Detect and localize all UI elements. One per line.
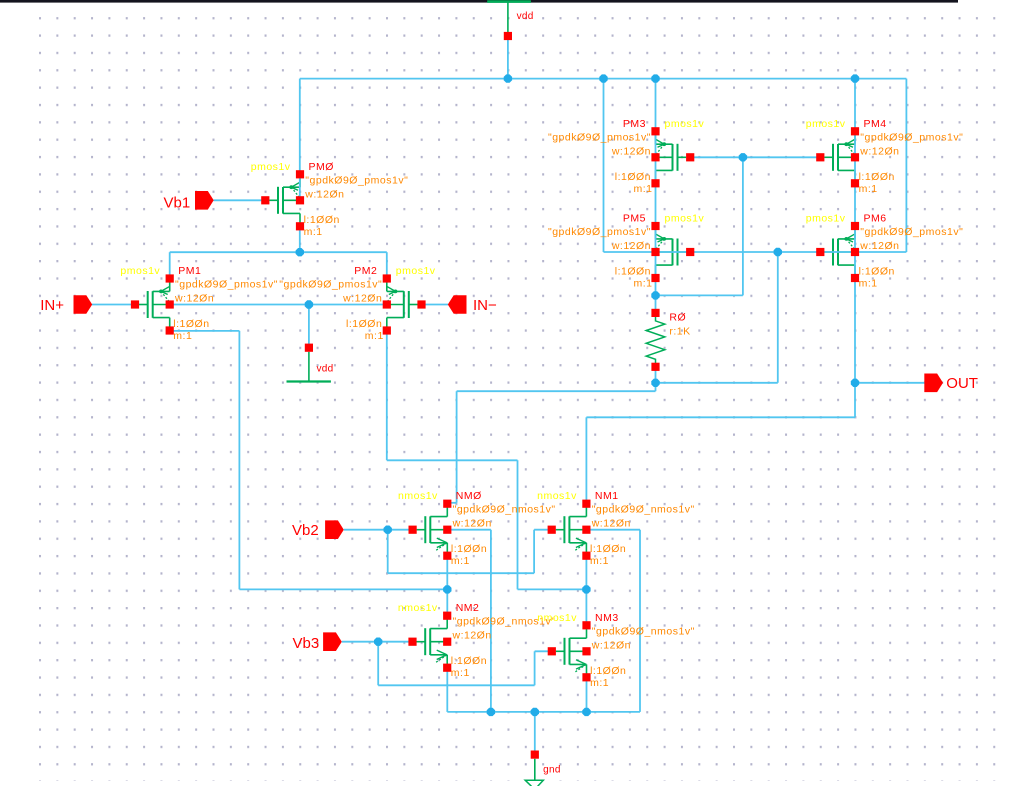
svg-text:"gpdkØ9Ø_pmos1v": "gpdkØ9Ø_pmos1v" <box>860 131 963 143</box>
svg-text:IN+: IN+ <box>40 297 64 314</box>
svg-text:m:1: m:1 <box>365 330 384 342</box>
svg-text:l:1ØØn: l:1ØØn <box>346 318 382 330</box>
svg-text:"gpdkØ9Ø_pmos1v": "gpdkØ9Ø_pmos1v" <box>305 174 408 186</box>
svg-text:w:12Øn: w:12Øn <box>174 293 214 305</box>
svg-text:w:12Øn: w:12Øn <box>452 518 492 530</box>
svg-text:l:1ØØn: l:1ØØn <box>859 266 895 278</box>
svg-text:l:1ØØn: l:1ØØn <box>173 318 209 330</box>
svg-text:m:1: m:1 <box>590 555 609 567</box>
svg-text:PM5: PM5 <box>623 213 646 225</box>
svg-text:"gpdkØ9Ø_nmos1v": "gpdkØ9Ø_nmos1v" <box>592 625 695 637</box>
svg-text:Vb2: Vb2 <box>292 522 319 539</box>
svg-text:m:1: m:1 <box>590 677 609 689</box>
svg-text:gnd: gnd <box>543 765 561 776</box>
svg-text:PM6: PM6 <box>864 213 887 225</box>
svg-text:PM3: PM3 <box>623 118 646 130</box>
svg-text:l:1ØØn: l:1ØØn <box>304 214 340 226</box>
svg-text:nmos1v: nmos1v <box>537 490 577 502</box>
svg-text:PM1: PM1 <box>178 265 201 277</box>
svg-text:"gpdkØ9Ø_nmos1v": "gpdkØ9Ø_nmos1v" <box>453 504 556 516</box>
svg-text:"gpdkØ9Ø_nmos1v": "gpdkØ9Ø_nmos1v" <box>592 504 695 516</box>
svg-text:w:12Øn: w:12Øn <box>304 188 344 200</box>
svg-text:m:1: m:1 <box>451 555 470 567</box>
svg-text:pmos1v: pmos1v <box>806 118 846 130</box>
svg-text:vdd: vdd <box>317 363 334 374</box>
svg-text:NM1: NM1 <box>595 490 619 502</box>
svg-text:nmos1v: nmos1v <box>537 612 577 624</box>
svg-text:RØ: RØ <box>669 312 686 324</box>
svg-text:pmos1v: pmos1v <box>665 213 705 225</box>
svg-text:Vb1: Vb1 <box>164 195 191 212</box>
svg-text:"gpdkØ9Ø_pmos1v": "gpdkØ9Ø_pmos1v" <box>548 131 651 143</box>
svg-text:w:12Øn: w:12Øn <box>859 145 899 157</box>
svg-text:w:12Øn: w:12Øn <box>342 293 382 305</box>
svg-text:pmos1v: pmos1v <box>665 118 705 130</box>
svg-text:l:1ØØn: l:1ØØn <box>615 266 651 278</box>
svg-text:l:1ØØn: l:1ØØn <box>451 543 487 555</box>
svg-text:PM2: PM2 <box>354 265 377 277</box>
svg-text:nmos1v: nmos1v <box>398 602 438 614</box>
svg-text:vdd: vdd <box>517 11 534 22</box>
svg-text:m:1: m:1 <box>173 330 192 342</box>
svg-text:NM2: NM2 <box>456 602 480 614</box>
svg-text:l:1ØØn: l:1ØØn <box>451 655 487 667</box>
svg-text:"gpdkØ9Ø_pmos1v": "gpdkØ9Ø_pmos1v" <box>279 279 382 291</box>
svg-text:r:1K: r:1K <box>669 326 690 338</box>
svg-text:pmos1v: pmos1v <box>120 265 160 277</box>
svg-text:PMØ: PMØ <box>309 161 334 173</box>
svg-text:"gpdkØ9Ø_pmos1v": "gpdkØ9Ø_pmos1v" <box>175 279 278 291</box>
svg-text:NMØ: NMØ <box>456 490 482 502</box>
svg-text:w:12Øn: w:12Øn <box>591 639 631 651</box>
svg-text:l:1ØØn: l:1ØØn <box>859 171 895 183</box>
svg-text:"gpdkØ9Ø_pmos1v": "gpdkØ9Ø_pmos1v" <box>860 226 963 238</box>
svg-text:l:1ØØn: l:1ØØn <box>615 171 651 183</box>
svg-text:IN−: IN− <box>473 297 497 314</box>
svg-text:Vb3: Vb3 <box>293 635 320 652</box>
svg-text:w:12Øn: w:12Øn <box>591 518 631 530</box>
svg-text:NM3: NM3 <box>595 612 619 624</box>
svg-text:pmos1v: pmos1v <box>806 213 846 225</box>
svg-text:w:12Øn: w:12Øn <box>859 240 899 252</box>
svg-text:l:1ØØn: l:1ØØn <box>590 543 626 555</box>
svg-text:pmos1v: pmos1v <box>396 265 436 277</box>
svg-text:m:1: m:1 <box>859 278 878 290</box>
svg-text:m:1: m:1 <box>451 667 470 679</box>
svg-text:w:12Øn: w:12Øn <box>611 145 651 157</box>
svg-text:m:1: m:1 <box>633 183 652 195</box>
svg-text:nmos1v: nmos1v <box>398 490 438 502</box>
svg-text:m:1: m:1 <box>304 226 323 238</box>
svg-text:OUT: OUT <box>946 375 978 392</box>
svg-text:m:1: m:1 <box>633 278 652 290</box>
svg-text:m:1: m:1 <box>859 183 878 195</box>
svg-text:PM4: PM4 <box>864 118 887 130</box>
svg-text:pmos1v: pmos1v <box>251 161 291 173</box>
svg-text:w:12Øn: w:12Øn <box>452 630 492 642</box>
svg-text:w:12Øn: w:12Øn <box>611 240 651 252</box>
svg-text:l:1ØØn: l:1ØØn <box>590 665 626 677</box>
svg-text:"gpdkØ9Ø_pmos1v": "gpdkØ9Ø_pmos1v" <box>548 226 651 238</box>
